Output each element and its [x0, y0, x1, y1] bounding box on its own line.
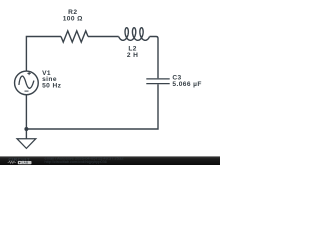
voltage source V1 circle [15, 71, 39, 95]
junction node [24, 127, 28, 131]
svg-text:http://circuitlab.com/cxd/hkjp: http://circuitlab.com/cxd/hkjpyhpp036 [45, 160, 107, 164]
svg-text:5.066 µF: 5.066 µF [172, 81, 201, 88]
logo LAB box [18, 161, 32, 164]
wire V1 to ground [25, 95, 27, 139]
resistor R2 [61, 31, 88, 42]
svg-text:LAB: LAB [22, 161, 29, 165]
wire top-left [26, 37, 61, 72]
svg-text:2 H: 2 H [127, 52, 138, 59]
V1 plus sign [27, 72, 30, 75]
wire top-right corner [150, 37, 158, 79]
wire resistor to inductor [88, 36, 119, 38]
ground [17, 139, 36, 149]
inductor L2 [119, 28, 150, 41]
V1 sine wave [19, 76, 34, 88]
svg-text:100 Ω: 100 Ω [63, 16, 83, 23]
svg-text:50 Hz: 50 Hz [42, 83, 62, 90]
wire right-bottom [26, 84, 158, 129]
capacitor C3 top plate [146, 78, 169, 80]
logo resistor zigzag [8, 161, 16, 163]
V1 minus sign [25, 90, 29, 92]
capacitor C3 bottom plate [146, 83, 169, 85]
